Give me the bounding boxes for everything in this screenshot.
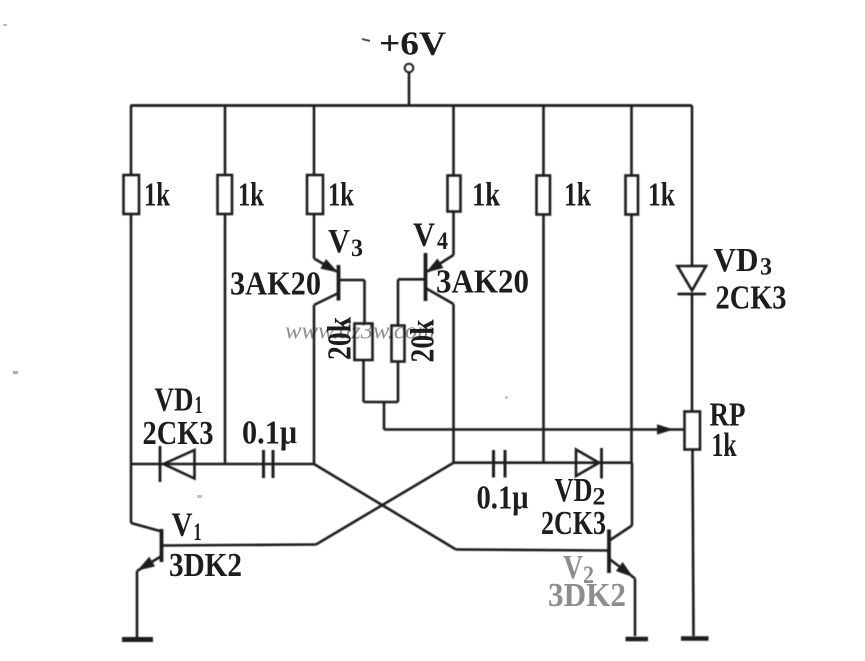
svg-text:0.1μ: 0.1μ bbox=[477, 480, 529, 517]
svg-text:V: V bbox=[328, 223, 350, 260]
svg-text:VD: VD bbox=[714, 242, 759, 279]
svg-text:V: V bbox=[413, 217, 435, 254]
svg-text:1k: 1k bbox=[238, 177, 264, 214]
svg-text:1k: 1k bbox=[648, 177, 675, 214]
svg-text:VD: VD bbox=[155, 382, 194, 419]
svg-text:0.1μ: 0.1μ bbox=[242, 415, 297, 452]
svg-text:3AK20: 3AK20 bbox=[436, 264, 529, 301]
svg-text:1k: 1k bbox=[564, 177, 591, 214]
svg-text:3AK20: 3AK20 bbox=[230, 266, 321, 303]
svg-text:2CK3: 2CK3 bbox=[541, 505, 606, 542]
svg-text:1k: 1k bbox=[144, 177, 170, 214]
svg-text:1k: 1k bbox=[328, 177, 354, 214]
svg-text:3: 3 bbox=[760, 254, 772, 281]
svg-text:4: 4 bbox=[437, 228, 448, 255]
svg-text:2CK3: 2CK3 bbox=[143, 415, 214, 452]
svg-text:20k: 20k bbox=[405, 319, 442, 362]
svg-text:3: 3 bbox=[351, 235, 363, 262]
svg-text:20k: 20k bbox=[322, 317, 359, 360]
svg-text:1k: 1k bbox=[472, 177, 500, 214]
svg-text:3DK2: 3DK2 bbox=[169, 547, 242, 584]
svg-text:1k: 1k bbox=[712, 427, 737, 464]
svg-text:VD: VD bbox=[555, 472, 593, 509]
svg-text:2CK3: 2CK3 bbox=[716, 280, 787, 317]
svg-text:V: V bbox=[172, 507, 193, 544]
svg-text:+6V: +6V bbox=[379, 26, 446, 63]
svg-text:1: 1 bbox=[194, 519, 202, 546]
svg-text:3DK2: 3DK2 bbox=[548, 577, 626, 614]
